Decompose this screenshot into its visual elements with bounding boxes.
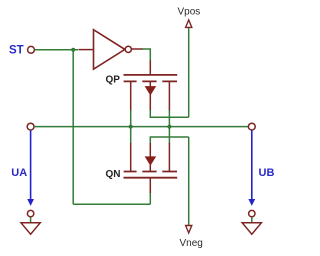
svg-text:Vneg: Vneg bbox=[180, 238, 203, 249]
wire node A down to QN left leg bbox=[130, 126, 132, 144]
node ST junction bbox=[71, 48, 75, 52]
source UA arrowhead bbox=[27, 199, 34, 206]
source UB arrow line bbox=[251, 130, 253, 200]
ground UA bbox=[21, 223, 40, 234]
terminal ST bbox=[28, 46, 35, 53]
power Vpos arrow bbox=[186, 20, 192, 28]
svg-text:QP: QP bbox=[106, 75, 121, 86]
wire QP left leg to node A bbox=[130, 110, 132, 128]
node A junction dot bbox=[129, 125, 133, 129]
inverter U1 bubble bbox=[125, 46, 131, 52]
transistor QP left leg bbox=[130, 81, 132, 110]
wire QN bulk to Vneg rail bbox=[150, 137, 188, 144]
transistor QN gate red stub bbox=[149, 178, 151, 193]
wire QP bulk to Vpos rail bbox=[150, 110, 188, 117]
power Vneg arrow bbox=[186, 226, 192, 233]
transistor QN bulk leg bbox=[149, 143, 151, 172]
source UB arrowhead bbox=[248, 199, 255, 206]
svg-text:ST: ST bbox=[9, 45, 24, 57]
ground UB bbox=[242, 223, 261, 234]
svg-text:UB: UB bbox=[259, 167, 275, 179]
inverter U1 input stub bbox=[79, 49, 94, 51]
transistor QP gate bar bbox=[124, 74, 178, 76]
svg-text:UA: UA bbox=[11, 167, 27, 179]
wire QN gate vertical green part bbox=[149, 192, 151, 204]
svg-text:QN: QN bbox=[106, 169, 121, 180]
node B junction dot bbox=[167, 125, 171, 129]
wire Vpos vertical bbox=[188, 28, 190, 117]
wire UA ground stub bbox=[30, 217, 32, 223]
terminal UB ground bbox=[249, 210, 255, 216]
wire UB ground stub bbox=[251, 217, 253, 223]
svg-text:Vpos: Vpos bbox=[178, 6, 201, 17]
terminal UA ground bbox=[27, 210, 33, 216]
wire Vneg vertical bbox=[188, 137, 190, 225]
source UA arrow line bbox=[30, 130, 32, 200]
inverter U1 output stub bbox=[132, 48, 144, 50]
wire node B down to QN right leg bbox=[168, 126, 170, 144]
inverter U1 triangle bbox=[94, 30, 125, 69]
transistor QN channel segments bbox=[124, 171, 177, 173]
terminal node A bbox=[27, 123, 34, 130]
wire ST junction down to QN gate row bbox=[72, 50, 74, 204]
transistor QN right leg bbox=[168, 143, 170, 172]
transistor QN gate bar bbox=[124, 177, 178, 179]
transistor QP channel segments bbox=[124, 80, 177, 82]
wire ST terminal to junction bbox=[35, 49, 78, 51]
transistor QP bulk leg bbox=[149, 81, 151, 110]
wire QP right leg down bbox=[168, 110, 170, 128]
wire QP gate vertical red part bbox=[149, 61, 151, 76]
wire main rail node A to node B bbox=[34, 126, 248, 128]
wire inverter output to QP gate bbox=[143, 49, 151, 62]
wire bottom run to QN gate bbox=[73, 203, 150, 205]
transistor QP bulk arrow bbox=[145, 86, 157, 95]
transistor QN bulk arrow bbox=[145, 156, 157, 165]
terminal node B bbox=[248, 123, 255, 130]
transistor QN left leg bbox=[130, 143, 132, 172]
transistor QP right leg bbox=[168, 81, 170, 110]
